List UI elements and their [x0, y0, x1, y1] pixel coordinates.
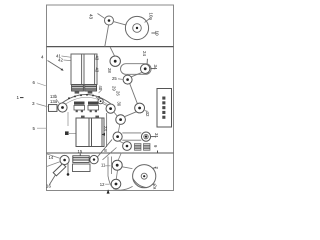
- svg-text:30: 30: [117, 102, 122, 107]
- svg-text:12: 12: [100, 182, 105, 187]
- leader 25: [118, 78, 123, 81]
- arrow 4: [48, 61, 64, 71]
- path S-H: [102, 103, 107, 105]
- roller 24: [110, 56, 120, 66]
- process unit 2: [88, 102, 99, 113]
- box 13: [49, 105, 58, 112]
- svg-text:3: 3: [32, 101, 35, 106]
- cassette right: [92, 118, 105, 147]
- svg-text:25: 25: [112, 76, 117, 81]
- curve P to Q: [113, 186, 133, 190]
- leader 31 dash: [151, 136, 157, 138]
- path M-L: [119, 141, 123, 143]
- leader 42: [64, 59, 71, 62]
- small roller 28: [98, 99, 103, 104]
- roller 22: [116, 115, 126, 125]
- channel wall a: [108, 157, 113, 188]
- roller 20: [111, 179, 121, 189]
- drum 13: [58, 103, 67, 112]
- cassette left: [76, 118, 92, 147]
- leader 40: [99, 90, 102, 94]
- feed arrowhead: [101, 133, 105, 136]
- link O-P: [116, 170, 117, 179]
- tray under feed block: [73, 164, 91, 172]
- svg-text:43: 43: [95, 68, 100, 73]
- path G-I: [125, 112, 136, 117]
- leader 10 dash: [151, 32, 156, 34]
- svg-text:28: 28: [107, 68, 112, 73]
- svg-text:40: 40: [98, 86, 103, 91]
- bottom section divider: [47, 152, 174, 154]
- path C-D capsule: [121, 64, 152, 75]
- label 35 block: [135, 144, 142, 151]
- leader 11: [105, 165, 110, 167]
- diagonal path to fuser b: [103, 148, 117, 160]
- path I-M: [118, 124, 120, 132]
- feed block striped: [73, 156, 89, 163]
- output tray box: [157, 89, 172, 128]
- guide line upper: [47, 154, 60, 158]
- label 1 arrow: [17, 95, 24, 100]
- path divider to O: [118, 153, 122, 161]
- leader 6: [37, 83, 46, 86]
- svg-text:43: 43: [95, 56, 100, 61]
- bottom arrow: [107, 189, 110, 193]
- big roller 2: [133, 165, 156, 188]
- svg-text:15: 15: [78, 149, 83, 154]
- leader into drum: [56, 99, 60, 104]
- wall line left: [67, 112, 69, 126]
- svg-text:43: 43: [89, 14, 94, 20]
- label 43: [89, 14, 94, 20]
- svg-text:24: 24: [142, 51, 147, 56]
- svg-text:42: 42: [58, 58, 63, 63]
- roller 43 (top small): [105, 16, 114, 25]
- roller 31: [141, 132, 150, 141]
- manual feed flap: [53, 164, 66, 176]
- tick 9: [157, 151, 159, 153]
- leader 10a: [145, 19, 150, 23]
- path S up: [96, 97, 99, 99]
- svg-text:34: 34: [153, 65, 158, 70]
- roller 18: [90, 155, 98, 163]
- cartridge cap 42a: [85, 85, 97, 94]
- svg-text:11: 11: [101, 163, 106, 168]
- cartridge cap 41a: [72, 85, 84, 94]
- label 36 block: [144, 144, 151, 151]
- toner cartridge 41: [71, 54, 84, 85]
- leader 2 dash: [153, 167, 157, 168]
- path D-E: [131, 73, 141, 77]
- path E-G: [130, 84, 137, 103]
- leader 34 dash: [151, 68, 156, 70]
- roller 19: [112, 160, 122, 170]
- leader 5: [37, 127, 47, 129]
- leader 7: [69, 132, 76, 134]
- belt lower line: [63, 97, 110, 106]
- svg-text:23: 23: [103, 126, 108, 131]
- svg-text:16: 16: [46, 184, 51, 189]
- channel wall b: [111, 157, 113, 175]
- paper path into middle section: [110, 47, 114, 56]
- leader 41: [62, 56, 71, 57]
- cassette nub 1: [81, 116, 85, 118]
- box vertical text blobs: [162, 97, 165, 119]
- svg-text:14: 14: [49, 155, 54, 160]
- leader 43: [98, 14, 106, 19]
- leader 12: [105, 183, 109, 185]
- pickup roller 17: [60, 155, 69, 164]
- roller 32: [135, 103, 145, 113]
- svg-text:2a: 2a: [153, 185, 158, 190]
- roller 34: [141, 64, 150, 73]
- path H-I: [114, 112, 118, 116]
- curve O to Q: [122, 167, 132, 169]
- nip line bottom: [122, 139, 141, 141]
- pointer 12 dot: [67, 173, 70, 176]
- pointer 12 line: [67, 163, 69, 174]
- roller 33: [123, 142, 132, 151]
- cassette nub 2: [95, 116, 99, 118]
- toner cartridge 42: [84, 54, 97, 85]
- svg-text:1: 1: [17, 95, 20, 100]
- guide line lower: [47, 162, 60, 167]
- paper path from roller 43 down: [105, 25, 109, 47]
- svg-text:4: 4: [41, 55, 44, 60]
- belt rollers (dots on arc): [68, 94, 100, 99]
- leader 2a dash: [153, 183, 156, 185]
- feed channel wall: [106, 113, 108, 147]
- tick 15: [79, 154, 81, 156]
- outer machine frame: [47, 5, 174, 191]
- svg-text:26: 26: [116, 91, 121, 96]
- roller 21: [113, 132, 122, 141]
- leader 16: [50, 175, 56, 185]
- diagonal path to fuser a: [97, 140, 112, 158]
- svg-text:13a: 13a: [50, 99, 58, 104]
- leader 3: [37, 104, 48, 107]
- top band divider: [47, 46, 174, 48]
- transfer belt arc: [62, 94, 111, 104]
- roller 25: [123, 75, 132, 84]
- svg-text:31: 31: [154, 133, 159, 138]
- process unit 1: [74, 102, 85, 113]
- svg-text:32: 32: [145, 112, 150, 117]
- nip line top: [122, 132, 141, 134]
- label 7: [65, 131, 69, 135]
- big roller 10: [125, 16, 148, 39]
- roller 30: [106, 104, 115, 113]
- belt line A-B: [114, 22, 133, 27]
